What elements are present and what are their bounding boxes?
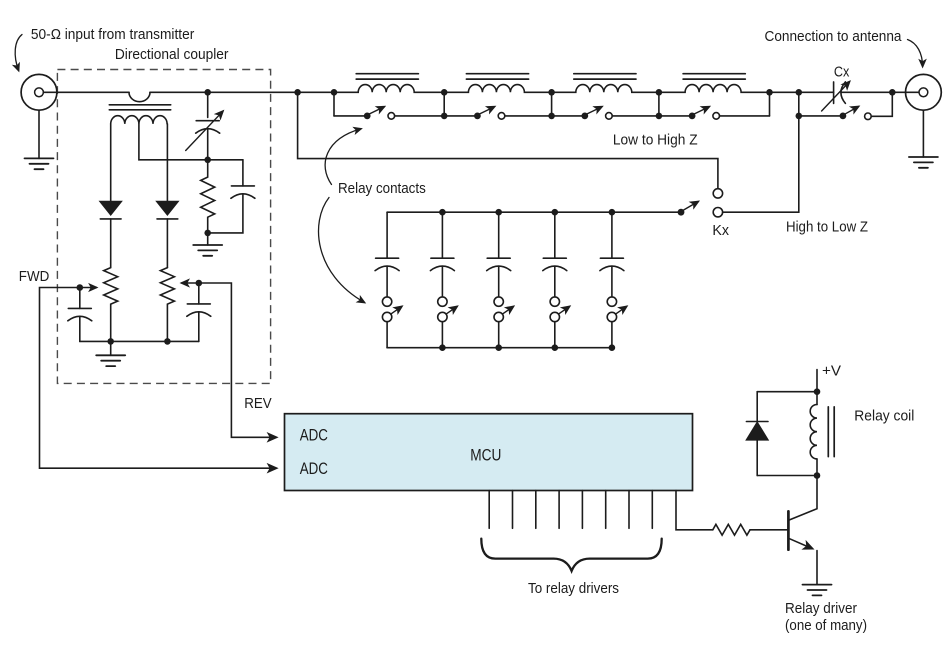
svg-text:Cx: Cx	[834, 64, 850, 80]
node: coil top junction	[814, 388, 821, 395]
node: bank top junction C8	[552, 209, 559, 216]
wire: secondary left end down to D1	[110, 124, 112, 201]
wire+switch: Cx bypass	[799, 92, 893, 119]
svg-text:REV: REV	[244, 396, 272, 412]
svg-text:ADC: ADC	[300, 459, 328, 478]
resistor R4 (base)	[713, 524, 750, 535]
relay coil K	[810, 392, 834, 476]
MCU output pin 1	[488, 491, 490, 529]
wire: connector to ground	[38, 110, 40, 158]
ground at detector	[96, 355, 125, 366]
svg-text:50-Ω input from transmitter: 50-Ω input from transmitter	[31, 27, 195, 43]
node: rail junction at low-Z tap	[294, 89, 301, 96]
node: pot R2 bottom	[107, 338, 114, 345]
svg-text:To relay drivers: To relay drivers	[528, 581, 619, 597]
svg-text:FWD: FWD	[19, 269, 50, 285]
wire: low-Z tap to Kx upper contact	[298, 92, 718, 188]
svg-text:Connection to antenna: Connection to antenna	[765, 29, 903, 45]
wire: MCU drive pin to base resistor	[676, 491, 713, 530]
capacitor bank C7 with relay contact	[487, 212, 514, 348]
node: RC top junction	[204, 157, 211, 164]
svg-text:Kx: Kx	[712, 223, 729, 239]
wire: capacitor bank bottom rail	[387, 347, 612, 349]
MCU output pin 3	[535, 491, 537, 529]
node: bank bottom junction C6	[439, 344, 446, 351]
wire: bottom rail to ground	[110, 341, 112, 355]
inductor L3 with bypass	[552, 74, 659, 120]
MCU output pin 7	[628, 491, 630, 529]
MCU output pin 5	[581, 491, 583, 529]
MCU output pin 8	[651, 491, 653, 529]
brace: to relay drivers	[481, 539, 661, 571]
svg-text:Relay contacts: Relay contacts	[338, 181, 426, 197]
switch arm toward Kx upper contact	[684, 202, 699, 211]
svg-text:High to Low Z: High to Low Z	[786, 219, 868, 235]
flyback diode D3	[746, 392, 768, 476]
capacitor bank C5 with relay contact	[375, 212, 402, 348]
node: L1 left junction	[331, 89, 338, 96]
node: bank bottom junction C8	[552, 344, 559, 351]
capacitor bank C6 with relay contact	[430, 212, 457, 348]
node: rail junction at Cx bypass right	[889, 89, 896, 96]
inductor L2 with bypass	[444, 74, 551, 120]
ground at antenna connector	[909, 157, 938, 168]
wire: diode bottom to coil bottom	[757, 475, 817, 477]
wire: coil top to flyback diode	[757, 391, 817, 393]
node: Kx arm pivot	[678, 209, 685, 216]
svg-text:ADC: ADC	[300, 426, 328, 445]
diode D1	[100, 202, 121, 268]
wire: secondary center tap to RC node	[139, 124, 243, 160]
wire: main rail transformer to L1	[150, 91, 334, 93]
node: bank top junction C7	[495, 209, 502, 216]
wire: resistor to base	[750, 529, 788, 531]
potentiometer R2 (FWD)	[80, 268, 118, 342]
capacitor C3 (FWD filter)	[68, 288, 92, 342]
inductor L1 with bypass	[334, 74, 444, 120]
node: bank top junction C9	[609, 209, 616, 216]
node: bank bottom junction C7	[495, 344, 502, 351]
node: L4 right junction	[766, 89, 773, 96]
wire: antenna connector to ground	[922, 110, 924, 157]
node: pot R3 bottom	[164, 338, 171, 345]
node: L1/L2 junction bottom	[441, 113, 448, 120]
capacitor bank C8 with relay contact	[543, 212, 570, 348]
resistor R1	[201, 160, 215, 233]
directional coupler dashed box	[57, 70, 270, 384]
node: L1/L2 junction top	[441, 89, 448, 96]
wire: capacitor bank top rail with Kx arm	[387, 211, 678, 213]
node: coil bottom junction	[814, 472, 821, 479]
wire: REV to MCU ADC1	[199, 283, 276, 437]
node: rail junction at antenna-side vertical	[796, 89, 803, 96]
svg-text:Directional coupler: Directional coupler	[115, 47, 229, 63]
relay Kx lower contact	[713, 208, 722, 217]
node: bank bottom junction C9	[609, 344, 616, 351]
coax connector J2 antenna	[906, 74, 942, 110]
node: RC bottom junction	[204, 230, 211, 237]
variable capacitor C1	[186, 92, 223, 160]
node: Cx bypass junction	[796, 113, 803, 120]
inductor L4 with bypass	[659, 74, 770, 120]
potentiometer R3 (REV)	[160, 268, 198, 342]
capacitor bank C9 with relay contact	[600, 212, 627, 348]
wire: detector bottom rail	[80, 340, 199, 342]
capacitor C4 (REV filter)	[187, 283, 211, 341]
svg-text:Low to High Z: Low to High Z	[613, 133, 698, 149]
node: FWD wiper junction	[77, 284, 84, 291]
ground at Q1 emitter	[803, 585, 832, 596]
annotation arrow to C bank relay contact	[319, 198, 365, 303]
wire: Cx to antenna connector	[841, 91, 919, 93]
wire: FWD to MCU ADC2	[40, 288, 277, 469]
relay Kx upper contact	[713, 189, 722, 198]
svg-text:+V: +V	[822, 363, 841, 379]
MCU output pin 6	[605, 491, 607, 529]
node: junction on rail at variable cap C1	[204, 89, 211, 96]
annotation arrow to L1 relay contact	[325, 129, 361, 185]
diode D2	[157, 202, 178, 268]
capacitor C2	[208, 160, 255, 233]
node: REV wiper junction	[196, 280, 203, 287]
wire: rail L4 to Cx	[770, 91, 834, 93]
MCU output pin 2	[512, 491, 514, 529]
node: L3/L4 junction bottom	[656, 113, 663, 120]
wire: main rail from input connector to transformer	[43, 91, 129, 93]
transformer T1 primary (1-turn dip)	[129, 92, 150, 101]
wire: +V feed	[816, 370, 818, 392]
annotation arrow to antenna connector	[908, 40, 923, 67]
annotation arrow to input connector	[15, 35, 22, 71]
node: L2/L3 junction top	[548, 89, 555, 96]
node: L2/L3 junction bottom	[548, 113, 555, 120]
svg-text:Relay coil: Relay coil	[854, 409, 914, 425]
MCU output pin 4	[558, 491, 560, 529]
svg-text:Relay driver: Relay driver	[785, 601, 857, 617]
svg-text:(one of many): (one of many)	[785, 618, 867, 634]
node: L3/L4 junction top	[656, 89, 663, 96]
MCU block	[285, 414, 693, 491]
wire: secondary right end down to D2	[166, 124, 168, 201]
coax connector J1 input	[21, 74, 57, 110]
node: bank top junction C6	[439, 209, 446, 216]
wire: RC node to ground	[207, 233, 209, 245]
variable capacitor Cx	[822, 82, 850, 111]
wire: Kx lower contact to antenna-side vertical	[723, 92, 799, 212]
ground at input connector	[25, 158, 54, 169]
transistor Q1 relay driver	[788, 476, 817, 585]
svg-text:MCU: MCU	[470, 445, 501, 464]
ground at RC network	[193, 245, 222, 256]
transformer T1 secondary winding	[111, 116, 167, 124]
transformer T1 core	[109, 105, 170, 110]
